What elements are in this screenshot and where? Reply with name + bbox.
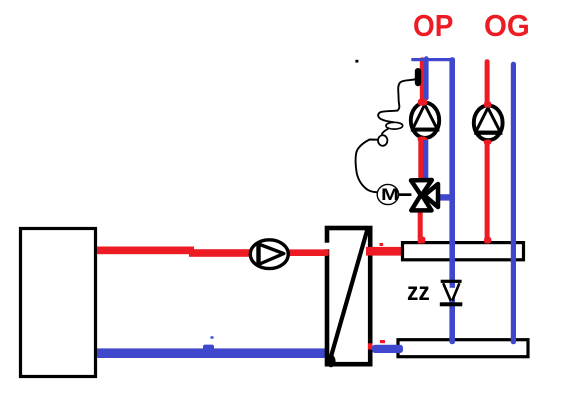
pump P1 on supply line (circle + right triangle) (250, 240, 288, 269)
label zz (407, 280, 430, 305)
sensor capsule on OP supply (415, 68, 421, 86)
white notch on HX left border above red inlet (324, 243, 332, 250)
red tip blob at OG manifold entry (484, 237, 491, 244)
pump P2 (OP riser) (411, 103, 440, 138)
wire: blue bridge at top of OP (411, 58, 453, 61)
red dot near HX top right (380, 243, 384, 246)
wire: red supply boiler to pump, segment A (97, 247, 194, 255)
blue bump on return line (203, 345, 214, 350)
heat exchanger diagonal (330, 229, 368, 360)
label OP (413, 8, 453, 44)
boiler (left rectangle) (21, 229, 96, 377)
upper manifold (403, 243, 524, 260)
capillary squiggle from sensor (378, 79, 415, 122)
wire: black link M to valve (398, 193, 411, 196)
squiggle big curve to motor (356, 140, 379, 193)
wire: OG blue return riser (511, 62, 516, 345)
red speck at HX right bottom (368, 343, 373, 349)
wire: red supply pump to heat exchanger (285, 249, 329, 256)
wire: OP blue return riser (tall, through manifolds to lower manifold) (449, 57, 455, 344)
squiggle flat loop (386, 122, 403, 129)
wire: red supply segment B (slight jog down) (189, 249, 252, 257)
red tip blob at OP manifold entry (420, 237, 426, 244)
wire: OG red riser top (485, 59, 490, 106)
red blob at OP pump inlet (418, 99, 427, 106)
label M (381, 186, 399, 203)
pump P3 (OG riser) (474, 105, 503, 140)
wire: red from HX right to upper manifold (366, 247, 403, 256)
mixing valve (3-way) (411, 180, 438, 210)
heat exchanger body (327, 228, 370, 364)
lower manifold (398, 340, 528, 357)
wire: OP red riser top (above pump) (420, 57, 425, 102)
wire: OP red below valve to manifold (418, 210, 423, 244)
check valve zz on OP return (440, 280, 463, 307)
squiggle from flat loop to small loop (382, 129, 389, 135)
wire: blue stub valve right to OP return riser (437, 194, 451, 200)
red blob at OG pump outlet (484, 140, 492, 145)
motor actuator M circle (377, 184, 398, 204)
blue dot above return line (211, 336, 214, 338)
red speck left of lower manifold (380, 340, 385, 343)
squiggle small loop (378, 135, 387, 146)
wire: OP red between pump and valve (418, 139, 423, 180)
label OG (484, 8, 530, 44)
wire: blue return line boiler to heat exchanger (97, 348, 328, 358)
red blob at OP pump outlet (418, 137, 427, 142)
wire: blue stub beside OP red (above pump) (424, 56, 429, 100)
wire: blue HX bottom to lower manifold (372, 345, 403, 353)
black dot top left of squiggle (355, 60, 358, 63)
red blob at OG pump inlet (484, 101, 491, 107)
blob at diagonal bottom end (326, 355, 335, 367)
wire: OP blue between pump and valve (423, 140, 428, 180)
wire: OG red below pump to manifold (485, 141, 490, 244)
